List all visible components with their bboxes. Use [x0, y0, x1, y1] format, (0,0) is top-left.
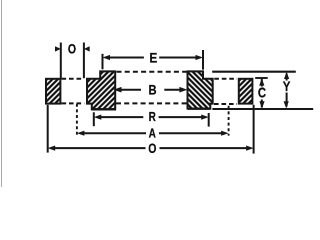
right bolt hole bottom hidden line	[214, 103, 237, 105]
svg-text:A: A	[149, 127, 156, 140]
hub top extension line for Y (right)	[212, 71, 296, 73]
left bolt hole bottom hidden line	[62, 102, 85, 104]
bore hidden line top (dashed across bore at hub top)	[117, 71, 188, 73]
svg-text:O: O	[68, 41, 76, 57]
dimension R line with arrows	[100, 116, 143, 118]
raised face bottom edge left (thick)	[91, 108, 116, 110]
page left border line	[1, 0, 3, 187]
dimension A extension lines (dashed bolt circle centerlines)	[76, 104, 78, 135]
svg-text:O: O	[148, 141, 156, 157]
dimension O (outside diameter) extension lines	[47, 105, 49, 153]
bore hidden line bottom (dashed across bore at plate bottom)	[116, 102, 188, 104]
dimension E line with arrows	[109, 57, 144, 59]
dimension C up arrow	[259, 78, 264, 85]
right bolt hole top hidden line	[214, 78, 237, 80]
svg-text:R: R	[149, 111, 156, 124]
dimension O (bolt hole) right arrow	[84, 46, 90, 51]
svg-text:Y: Y	[283, 78, 291, 94]
bottom face extension line for C and Y (right)	[212, 108, 313, 110]
dimension O (bolt hole) left arrow	[55, 46, 61, 51]
dimension Y vertical line	[286, 74, 288, 81]
svg-text:B: B	[148, 82, 156, 97]
dimension C top tick	[255, 77, 268, 79]
dimension O (outside diameter) line with arrows	[54, 147, 146, 149]
svg-text:C: C	[258, 84, 267, 101]
raised face bottom edge right (thick)	[188, 107, 210, 109]
svg-text:E: E	[149, 50, 157, 66]
dimension R extension lines	[93, 112, 95, 126]
flange left hub/raised-face section (hatched polygon)	[87, 71, 115, 109]
dimension A line with arrows	[84, 132, 147, 134]
dimension C down arrow	[259, 101, 264, 108]
dimension Y down arrow	[284, 101, 289, 108]
left bolt hole top hidden line	[62, 78, 85, 80]
dimension E extension lines	[102, 54, 104, 70]
flange left outer ring section (hatched rect)	[46, 79, 60, 104]
dimension O (bolt hole) extension lines	[60, 43, 62, 79]
dimension C vertical line	[261, 79, 263, 87]
flange right outer ring section (hatched rect)	[239, 79, 253, 104]
flange right hub/raised-face section (hatched polygon, mirrored hatch)	[188, 71, 213, 108]
dimension B line with arrows	[120, 89, 141, 91]
dimension Y up arrow	[284, 72, 289, 79]
